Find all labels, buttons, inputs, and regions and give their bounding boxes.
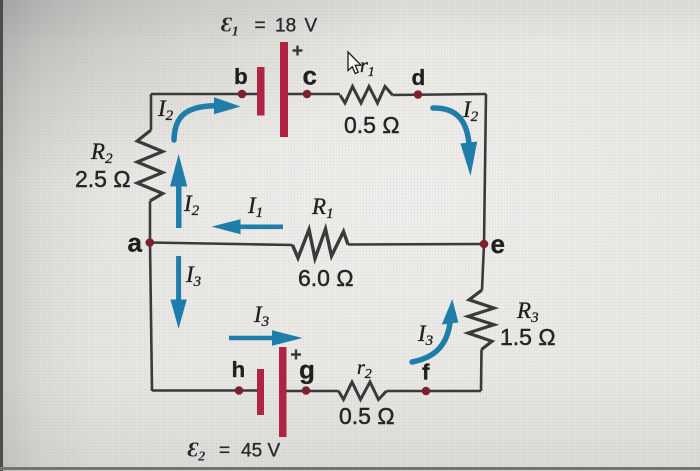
svg-text:e: e (491, 229, 505, 259)
svg-text:0.5 Ω: 0.5 Ω (339, 403, 395, 429)
node e (480, 240, 489, 249)
node b (238, 90, 247, 99)
svg-text:Ɛ1=18V: Ɛ1=18V (221, 13, 318, 40)
svg-text:a: a (128, 228, 143, 258)
current arrow I1 (middle branch, leftward) (212, 219, 284, 234)
wire: battery E1 right plate to node c to r1 (287, 93, 340, 96)
svg-text:0.5 Ω: 0.5 Ω (344, 112, 400, 138)
current arrow I3 vertical (below node a, downward) (170, 256, 186, 329)
wire: left side, node a down to bottom-left corner (150, 243, 152, 392)
battery E2 negative plate (short bar) (257, 369, 264, 415)
battery E2 plus sign (291, 350, 301, 360)
resistor r2 (0.5 ohm) zigzag (339, 382, 387, 400)
svg-text:g: g (299, 355, 315, 385)
battery E2 positive plate (tall bar) (279, 347, 287, 437)
svg-text:R3: R3 (516, 298, 539, 326)
wire: node e down to R3 (482, 244, 484, 290)
wire: left side, R2 bottom down to node a (149, 201, 152, 243)
svg-text:r2: r2 (357, 357, 372, 382)
current arrow I2 curved (top-right, downward) (433, 108, 477, 176)
wire: bottom-right corner to node f to r2 (387, 390, 482, 393)
node a (146, 238, 155, 247)
svg-text:I2: I2 (462, 97, 479, 125)
node h (235, 386, 244, 395)
node d (414, 90, 423, 99)
svg-text:R1: R1 (311, 194, 334, 222)
svg-text:I3: I3 (417, 321, 433, 349)
svg-text:h: h (232, 357, 246, 382)
wire: R3 down to bottom-right corner (480, 350, 483, 392)
current arrow I2 vertical (left branch, upward) (170, 154, 187, 228)
current arrow I3 horizontal (above battery E2, rightward) (229, 330, 303, 346)
svg-text:2.5 Ω: 2.5 Ω (75, 166, 131, 192)
current arrow I2 curved (top-left, into battery) (174, 97, 241, 140)
wire: battery E2 left plate to node h to bottom-left corner (152, 389, 258, 392)
wire: top-left horizontal (corner to battery E1 left plate) (151, 93, 257, 96)
wire: r2 to node g / battery E2 right plate (285, 390, 339, 393)
battery E1 positive plate (tall bar) (280, 42, 288, 137)
wire: middle, R1 to node e (348, 243, 484, 246)
svg-text:I3: I3 (253, 302, 269, 330)
resistor R2 (2.5 ohm) zigzag (137, 130, 163, 201)
svg-text:R2: R2 (90, 139, 113, 167)
current arrow I3 curved (near node f, upward) (412, 299, 458, 362)
svg-text:I3: I3 (185, 262, 201, 290)
node c (303, 90, 312, 99)
resistor r1 (0.5 ohm) zigzag (340, 87, 393, 104)
svg-text:6.0 Ω: 6.0 Ω (298, 265, 354, 291)
resistor R3 (1.5 ohm) zigzag (468, 290, 494, 350)
wire: right side, top corner down to node e (484, 94, 486, 244)
mouse cursor (348, 52, 361, 74)
svg-text:r1: r1 (360, 55, 375, 80)
svg-text:I2: I2 (183, 191, 200, 219)
svg-text:I1: I1 (247, 193, 263, 221)
svg-text:Ɛ2=45V: Ɛ2=45V (188, 438, 281, 465)
svg-text:f: f (422, 360, 430, 385)
battery E1 plus sign (293, 46, 303, 56)
svg-text:d: d (412, 65, 426, 90)
node f (422, 387, 431, 396)
wire: top-left corner down to R2 top (150, 94, 153, 130)
node g (302, 386, 311, 395)
svg-text:1.5 Ω: 1.5 Ω (500, 324, 556, 350)
battery E1 negative plate (short bar) (257, 67, 265, 116)
resistor R1 (6.0 ohm) zigzag (293, 229, 349, 259)
svg-text:I2: I2 (157, 96, 174, 124)
wire: r1 to node d to top-right corner (393, 94, 487, 95)
wire: middle, node a to R1 (150, 243, 293, 246)
svg-text:c: c (303, 60, 317, 90)
svg-text:b: b (234, 64, 248, 89)
